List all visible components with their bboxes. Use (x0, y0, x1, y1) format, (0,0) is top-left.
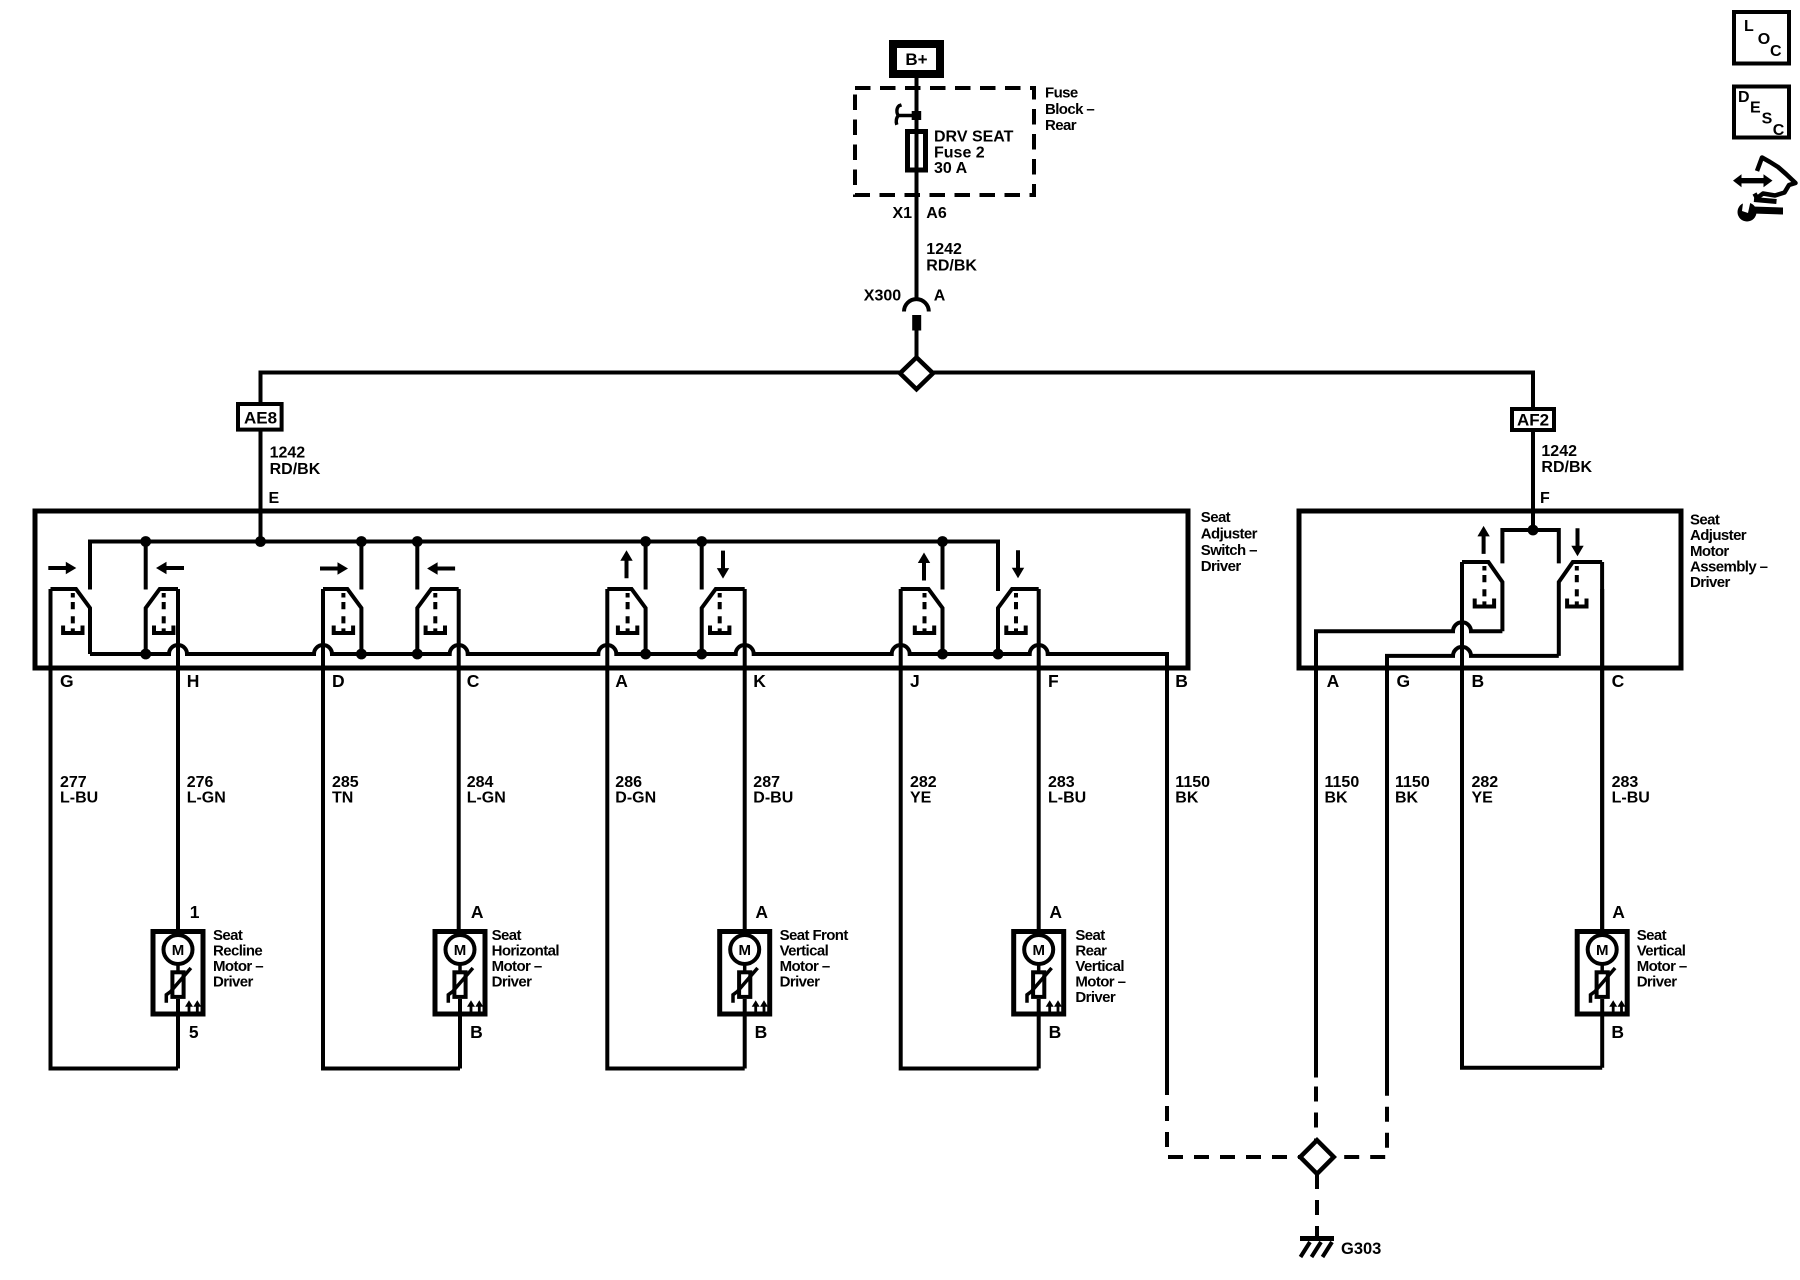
svg-text:Seat: Seat (1637, 927, 1667, 944)
svg-text:Driver: Driver (1075, 989, 1116, 1006)
svg-text:H: H (187, 671, 200, 691)
svg-text:B: B (1175, 671, 1188, 691)
svg-text:Rear: Rear (1045, 117, 1077, 134)
svg-text:Vertical: Vertical (780, 943, 829, 960)
svg-text:YE: YE (910, 790, 932, 807)
svg-text:RD/BK: RD/BK (926, 258, 977, 275)
svg-text:A: A (1612, 902, 1625, 922)
svg-text:Motor: Motor (1690, 543, 1729, 560)
svg-text:Motor –: Motor – (492, 958, 542, 975)
svg-text:282: 282 (1472, 774, 1499, 791)
svg-text:Motor –: Motor – (213, 958, 263, 975)
svg-text:Recline: Recline (213, 943, 262, 960)
svg-text:AF2: AF2 (1517, 411, 1549, 430)
svg-text:Driver: Driver (213, 974, 254, 991)
svg-text:1242: 1242 (926, 241, 962, 258)
svg-text:A: A (755, 902, 768, 922)
svg-text:B: B (470, 1022, 483, 1042)
svg-text:K: K (753, 671, 766, 691)
svg-text:X1: X1 (893, 205, 913, 222)
svg-text:A: A (1049, 902, 1062, 922)
svg-text:1150: 1150 (1175, 774, 1210, 791)
svg-text:284: 284 (467, 774, 494, 791)
svg-text:Rear: Rear (1075, 943, 1107, 960)
svg-text:M: M (738, 942, 751, 959)
svg-text:Adjuster: Adjuster (1201, 526, 1258, 543)
svg-text:O: O (1758, 31, 1770, 48)
svg-text:C: C (1612, 671, 1625, 691)
svg-text:Seat: Seat (492, 927, 522, 944)
svg-text:1242: 1242 (1541, 443, 1577, 460)
svg-text:1242: 1242 (270, 445, 306, 462)
svg-text:C: C (1770, 43, 1782, 60)
svg-text:A: A (615, 671, 628, 691)
svg-text:A: A (1327, 671, 1340, 691)
svg-text:287: 287 (753, 774, 780, 791)
svg-text:282: 282 (910, 774, 937, 791)
svg-text:G303: G303 (1341, 1240, 1381, 1258)
svg-text:D: D (1738, 89, 1750, 106)
svg-text:J: J (910, 671, 920, 691)
svg-text:RD/BK: RD/BK (1541, 459, 1592, 476)
svg-text:Motor –: Motor – (1637, 958, 1687, 975)
svg-text:D-GN: D-GN (615, 790, 656, 807)
svg-text:C: C (467, 671, 480, 691)
svg-text:G: G (1397, 671, 1411, 691)
svg-text:Switch –: Switch – (1201, 542, 1257, 559)
svg-text:B: B (1472, 671, 1485, 691)
svg-text:Fuse 2: Fuse 2 (934, 144, 985, 161)
svg-text:1: 1 (190, 902, 200, 922)
svg-text:F: F (1540, 490, 1550, 507)
svg-text:AE8: AE8 (244, 408, 277, 427)
svg-text:A: A (934, 288, 946, 305)
svg-text:L-GN: L-GN (187, 790, 226, 807)
svg-text:1150: 1150 (1325, 774, 1360, 791)
svg-text:BK: BK (1175, 790, 1199, 807)
svg-text:Motor –: Motor – (780, 958, 830, 975)
svg-text:RD/BK: RD/BK (270, 461, 321, 478)
svg-text:Horizontal: Horizontal (492, 943, 560, 960)
svg-text:Seat: Seat (1201, 509, 1231, 526)
svg-text:Driver: Driver (1201, 558, 1242, 575)
svg-text:Motor –: Motor – (1075, 974, 1125, 991)
svg-text:5: 5 (189, 1022, 199, 1042)
svg-text:L: L (1744, 18, 1754, 35)
svg-text:Seat Front: Seat Front (780, 927, 849, 944)
svg-text:X300: X300 (864, 288, 901, 305)
svg-text:L-BU: L-BU (60, 790, 98, 807)
svg-text:1150: 1150 (1395, 774, 1430, 791)
svg-text:285: 285 (332, 774, 359, 791)
svg-text:Driver: Driver (780, 974, 821, 991)
svg-text:Assembly –: Assembly – (1690, 559, 1768, 576)
svg-text:A6: A6 (926, 205, 947, 222)
svg-text:A: A (471, 902, 484, 922)
svg-text:L-GN: L-GN (467, 790, 506, 807)
svg-text:B: B (1611, 1022, 1624, 1042)
svg-text:D-BU: D-BU (753, 790, 793, 807)
svg-text:DRV SEAT: DRV SEAT (934, 129, 1014, 146)
svg-text:BK: BK (1325, 790, 1349, 807)
svg-text:Driver: Driver (1690, 574, 1731, 591)
svg-text:B+: B+ (905, 50, 927, 69)
svg-text:M: M (1596, 942, 1609, 959)
svg-text:B: B (1049, 1022, 1062, 1042)
svg-text:TN: TN (332, 790, 353, 807)
svg-text:F: F (1048, 671, 1059, 691)
svg-text:B: B (755, 1022, 768, 1042)
svg-text:Fuse: Fuse (1045, 85, 1078, 102)
svg-text:D: D (332, 671, 345, 691)
svg-text:C: C (1773, 122, 1785, 139)
svg-text:M: M (172, 942, 185, 959)
svg-text:L-BU: L-BU (1048, 790, 1086, 807)
svg-text:S: S (1762, 111, 1773, 128)
svg-text:Driver: Driver (1637, 974, 1678, 991)
svg-text:E: E (1750, 100, 1761, 117)
svg-text:276: 276 (187, 774, 214, 791)
svg-text:30 A: 30 A (934, 160, 968, 177)
svg-text:BK: BK (1395, 790, 1419, 807)
svg-text:G: G (60, 671, 74, 691)
svg-text:Vertical: Vertical (1075, 958, 1124, 975)
svg-text:Vertical: Vertical (1637, 943, 1686, 960)
svg-text:Seat: Seat (213, 927, 243, 944)
svg-text:E: E (269, 490, 280, 507)
svg-text:Seat: Seat (1075, 927, 1105, 944)
svg-text:283: 283 (1048, 774, 1075, 791)
svg-text:Seat: Seat (1690, 511, 1720, 528)
svg-text:YE: YE (1472, 790, 1494, 807)
svg-text:277: 277 (60, 774, 87, 791)
svg-text:Block –: Block – (1045, 101, 1094, 118)
svg-text:M: M (1032, 942, 1045, 959)
svg-text:M: M (454, 942, 467, 959)
svg-text:283: 283 (1612, 774, 1639, 791)
svg-text:L-BU: L-BU (1612, 790, 1650, 807)
svg-text:Adjuster: Adjuster (1690, 527, 1747, 544)
svg-text:Driver: Driver (492, 974, 533, 991)
svg-text:286: 286 (615, 774, 642, 791)
